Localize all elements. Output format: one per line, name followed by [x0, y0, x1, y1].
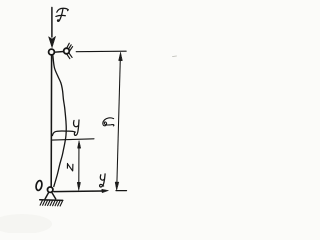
roller circle against wall	[64, 48, 70, 54]
label z (rotated)	[67, 164, 73, 171]
z bottom arrowhead	[77, 182, 80, 190]
y axis arrowhead	[102, 189, 109, 192]
label y (axis)	[100, 174, 106, 187]
top reference line to dimension	[76, 50, 126, 53]
force F arrow line	[51, 8, 53, 38]
l bottom arrowhead	[115, 182, 119, 190]
wall hatching at roller	[67, 43, 73, 58]
pin support at origin O	[48, 187, 53, 192]
bottom reference tick for l	[116, 190, 127, 192]
force F arrowhead	[49, 36, 56, 47]
ground line	[40, 199, 63, 202]
faint paper shading	[0, 214, 52, 234]
buckled deflection curve	[53, 55, 66, 187]
scan speck	[173, 55, 177, 58]
label F	[56, 8, 68, 21]
label l (script ell, rotated)	[103, 118, 114, 126]
dimension line l (length)	[117, 59, 120, 183]
deflection ordinate line at height z	[52, 139, 94, 140]
support triangle	[45, 192, 56, 199]
ground hatching	[40, 200, 62, 206]
z top arrowhead	[78, 141, 81, 148]
label y (deflection) with long tail	[52, 120, 79, 136]
dimension line z	[78, 146, 80, 184]
y axis line	[54, 190, 103, 193]
pin joint at top of column	[49, 49, 55, 55]
link wire to roller	[54, 51, 63, 54]
l top arrowhead	[119, 52, 123, 60]
label O (origin)	[35, 180, 43, 191]
column undeformed axis	[50, 55, 52, 187]
